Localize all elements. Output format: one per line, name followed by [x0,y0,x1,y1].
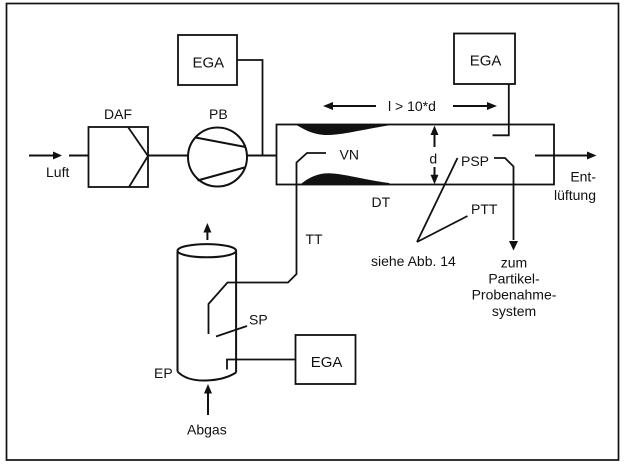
dimension l > 10*d right arrow [453,102,497,110]
exhaust pipe EP cylinder [178,244,237,380]
svg-text:d: d [429,151,437,167]
blower PB [188,128,247,187]
dimension d lower arrow [431,167,439,184]
svg-text:DAF: DAF [104,106,132,122]
svg-text:PSP: PSP [461,153,489,169]
svg-text:EGA: EGA [311,354,343,371]
transfer tube TT probe into tunnel [209,153,327,334]
svg-text:TT: TT [306,231,324,247]
sampling probe SP wire to EGA bottom [227,360,296,370]
dimension d upper arrow [431,126,439,148]
analyzer EGA (top right) [454,34,515,85]
wire DAF to PB [148,155,188,157]
svg-text:zum: zum [501,255,527,271]
svg-text:EP: EP [154,365,173,381]
svg-text:EGA: EGA [470,52,502,69]
analyzer EGA (left) [178,35,237,85]
tunnel exit arrow [535,152,597,160]
wire PB to tunnel [247,155,277,157]
analyzer EGA (bottom) [296,335,356,384]
svg-text:PTT: PTT [471,201,498,217]
arrow Abgas inlet [204,384,212,415]
svg-text:Partikel-: Partikel- [488,271,540,287]
wire EGA left to main line [237,60,263,155]
svg-text:Abgas: Abgas [187,422,227,438]
sampling probe from EGA top right [493,84,509,135]
arrow out of EP top [203,223,211,240]
arrow Luft inlet [29,152,62,160]
svg-text:Ent-: Ent- [570,169,596,185]
svg-text:lüftung: lüftung [554,187,596,203]
svg-text:PB: PB [209,106,228,122]
pointer line to PTT [417,216,468,242]
pointer line to PSP [417,158,458,242]
svg-text:system: system [492,303,536,319]
svg-text:siehe Abb. 14: siehe Abb. 14 [371,253,456,269]
svg-text:VN: VN [340,147,359,163]
svg-text:l > 10*d: l > 10*d [388,98,436,114]
svg-text:SP: SP [249,312,268,328]
filter DAF [89,127,149,187]
svg-text:DT: DT [372,194,391,210]
dilution tunnel DT [277,125,555,185]
arrow to particle sampling system [509,241,518,251]
venturi nozzle bottom profile [301,174,389,185]
svg-text:Luft: Luft [46,164,69,180]
particle sampling probe PSP [494,158,514,240]
svg-text:EGA: EGA [192,55,224,72]
pointer line SP [216,326,247,337]
dimension l > 10*d left arrow [323,102,376,110]
venturi nozzle top profile [297,124,390,134]
wire inlet to DAF [69,155,88,157]
svg-text:Probenahme-: Probenahme- [472,287,557,303]
